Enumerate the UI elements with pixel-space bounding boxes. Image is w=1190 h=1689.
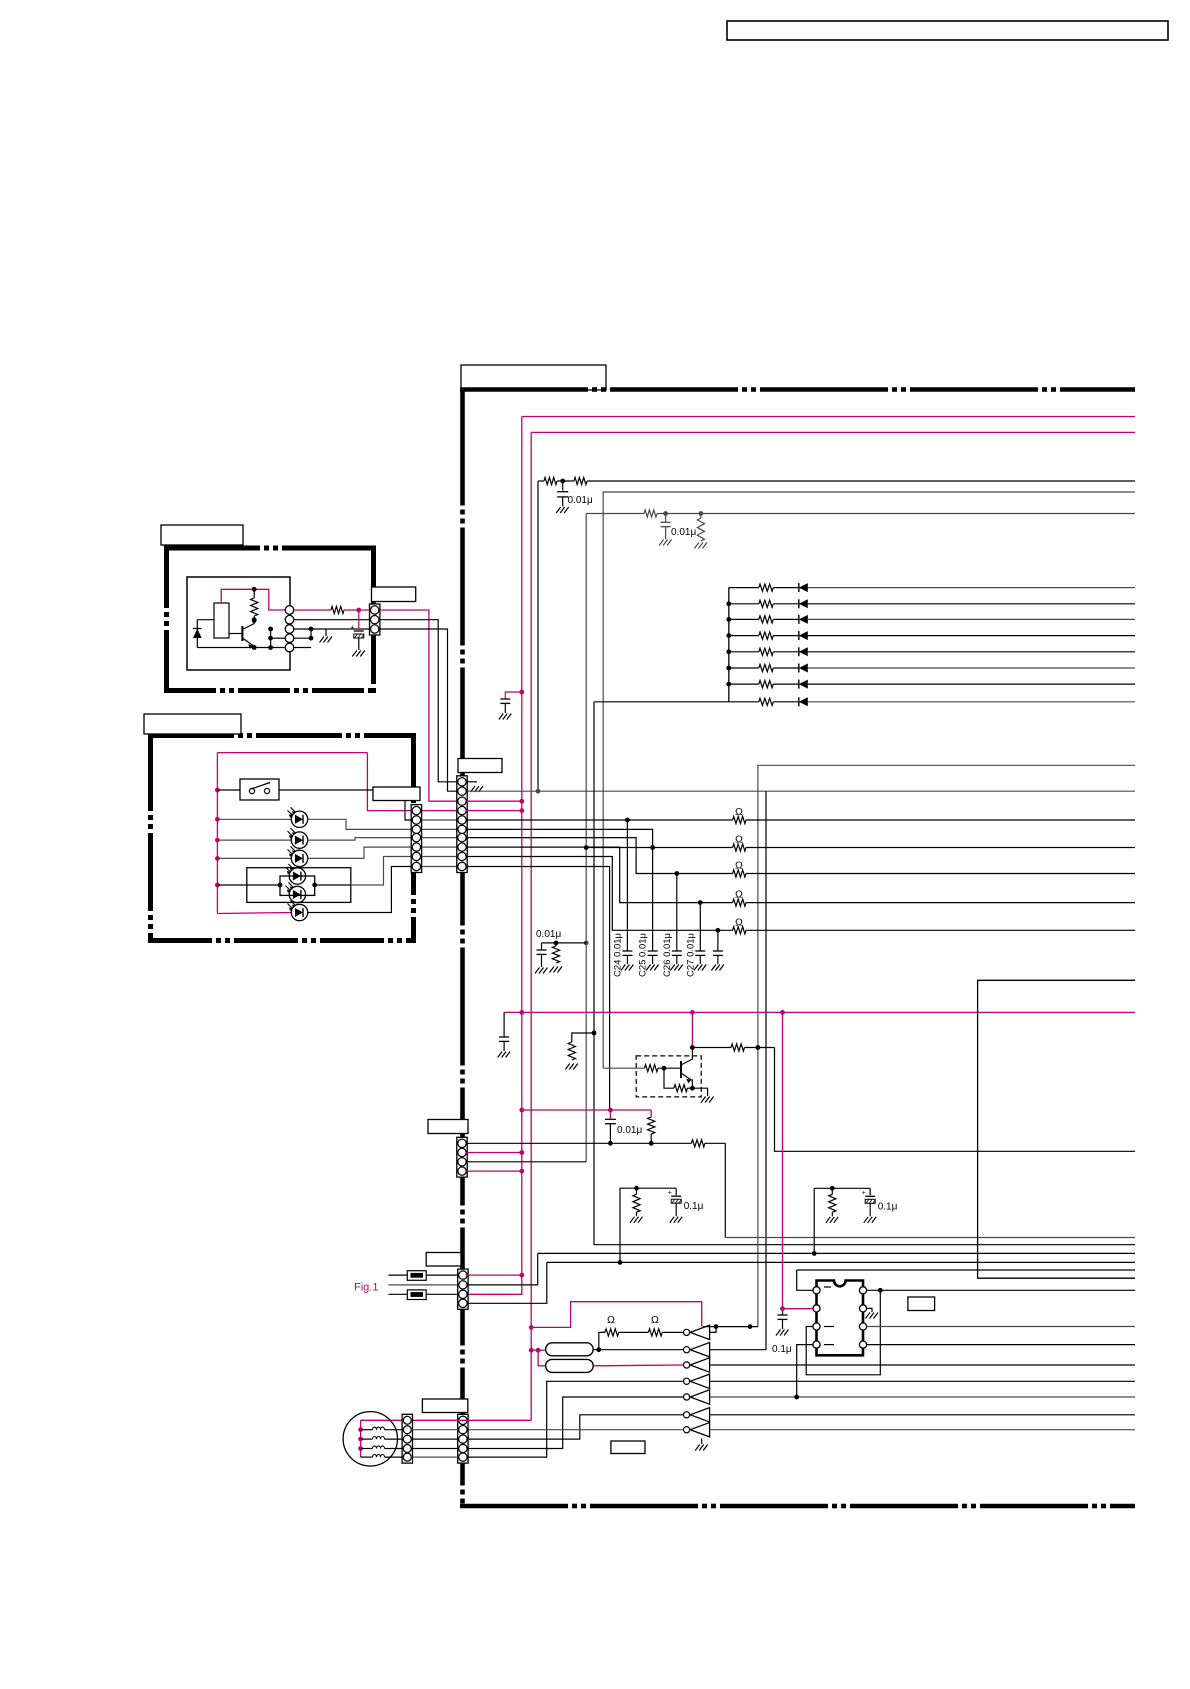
svg-text:+: +	[350, 625, 354, 632]
svg-text:Ω: Ω	[651, 1314, 659, 1326]
svg-text:0.1μ: 0.1μ	[684, 1201, 704, 1212]
svg-text:Ω: Ω	[735, 834, 743, 846]
svg-text:+: +	[668, 1190, 672, 1197]
svg-text:C27 0.01μ: C27 0.01μ	[685, 933, 696, 977]
svg-text:C24 0.01μ: C24 0.01μ	[612, 933, 623, 977]
svg-text:Ω: Ω	[735, 860, 743, 872]
svg-text:C26 0.01μ: C26 0.01μ	[662, 933, 673, 977]
svg-text:C25 0.01μ: C25 0.01μ	[638, 933, 649, 977]
svg-text:Ω: Ω	[735, 889, 743, 901]
svg-text:+: +	[862, 1190, 866, 1197]
svg-text:Ω: Ω	[735, 916, 743, 928]
svg-text:0.1μ: 0.1μ	[772, 1344, 792, 1355]
svg-text:0.01μ: 0.01μ	[536, 929, 561, 940]
svg-text:0.01μ: 0.01μ	[568, 495, 593, 506]
svg-text:Fig.1: Fig.1	[354, 1282, 378, 1294]
svg-text:Ω: Ω	[735, 806, 743, 818]
svg-text:Ω: Ω	[607, 1314, 615, 1326]
svg-text:0.01μ: 0.01μ	[671, 527, 696, 538]
svg-text:0.1μ: 0.1μ	[878, 1201, 898, 1212]
svg-text:0.01μ: 0.01μ	[617, 1125, 642, 1136]
